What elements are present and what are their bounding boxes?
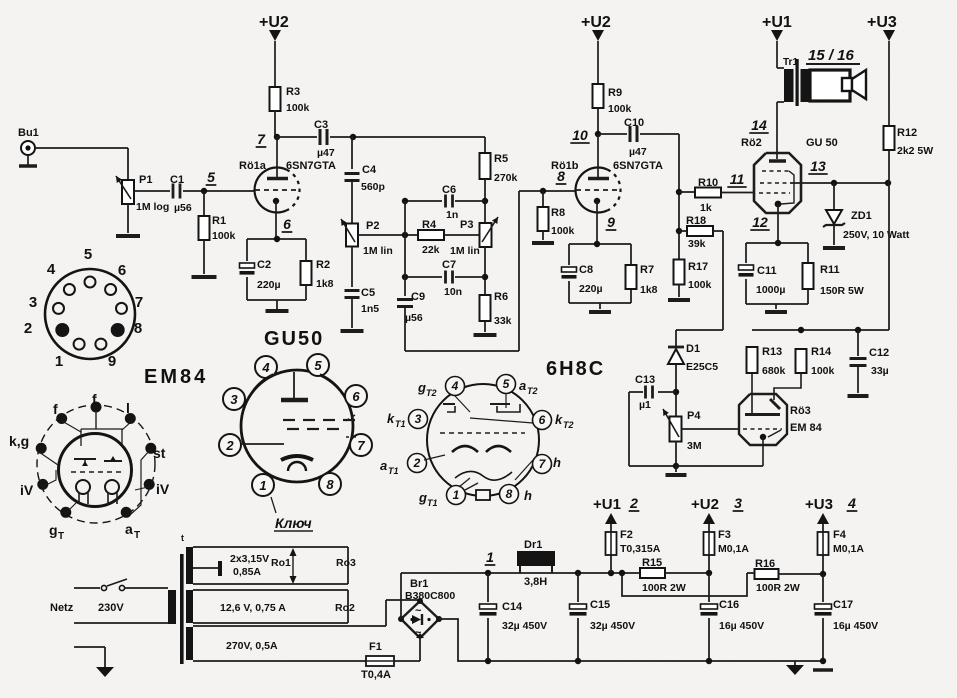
svg-text:2x3,15V: 2x3,15V [230,553,269,565]
svg-text:l: l [126,400,130,416]
svg-text:8: 8 [326,477,334,492]
svg-text:R16: R16 [755,558,775,570]
svg-text:5: 5 [314,358,322,373]
svg-text:R10: R10 [698,177,718,189]
svg-text:g: g [418,490,427,505]
svg-text:4: 4 [261,360,270,375]
svg-text:100k: 100k [286,102,310,114]
svg-text:B380C800: B380C800 [405,590,455,602]
svg-text:µ56: µ56 [405,312,423,324]
svg-text:1k: 1k [700,202,712,214]
svg-text:14: 14 [751,117,767,133]
svg-text:32µ 450V: 32µ 450V [590,620,635,632]
svg-text:100k: 100k [212,230,236,242]
svg-text:C10: C10 [624,117,644,129]
svg-text:k: k [387,411,395,426]
svg-text:220µ: 220µ [579,283,603,295]
svg-text:Ro3: Ro3 [336,557,356,569]
svg-text:g: g [49,522,58,538]
svg-text:2: 2 [413,456,421,470]
svg-text:R14: R14 [811,346,832,358]
svg-text:6: 6 [118,262,126,279]
svg-text:100k: 100k [551,225,575,237]
svg-text:GU50: GU50 [264,328,324,350]
svg-text:R5: R5 [494,153,508,165]
svg-text:T0,315A: T0,315A [620,543,661,555]
svg-text:10: 10 [572,127,588,143]
svg-text:C3: C3 [314,119,328,131]
svg-text:C7: C7 [442,259,456,271]
svg-text:22k: 22k [422,244,440,256]
svg-text:T1: T1 [395,419,406,429]
svg-text:6SN7GTA: 6SN7GTA [286,160,336,172]
svg-text:3: 3 [415,412,422,426]
svg-text:Ro2: Ro2 [335,602,355,614]
svg-text:C1: C1 [170,174,184,186]
svg-text:Netz: Netz [50,602,74,614]
svg-text:680k: 680k [762,365,786,377]
svg-text:R9: R9 [608,87,622,99]
svg-text:1: 1 [259,478,266,493]
svg-text:k: k [555,412,563,427]
svg-text:100k: 100k [688,279,712,291]
svg-text:9: 9 [108,353,116,370]
svg-text:R6: R6 [494,291,508,303]
svg-text:t: t [181,533,184,543]
svg-text:R4: R4 [422,219,437,231]
svg-text:Br1: Br1 [410,578,428,590]
svg-text:230V: 230V [98,602,124,614]
svg-text:a: a [380,458,387,473]
svg-text:Rö1a: Rö1a [239,160,267,172]
svg-text:f: f [53,401,58,417]
svg-text:1k8: 1k8 [316,278,334,290]
svg-text:T: T [58,531,64,542]
svg-text:T0,4A: T0,4A [361,669,391,681]
svg-text:1: 1 [486,549,494,565]
svg-text:µ47: µ47 [629,146,647,158]
svg-text:33µ: 33µ [871,365,889,377]
svg-text:GU 50: GU 50 [806,137,838,149]
svg-text:3: 3 [29,294,37,311]
svg-text:R8: R8 [551,207,565,219]
svg-text:C14: C14 [502,601,523,613]
svg-text:R18: R18 [686,215,706,227]
svg-text:C16: C16 [719,599,739,611]
svg-text:33k: 33k [494,315,512,327]
svg-text:Bu1: Bu1 [18,127,39,139]
svg-text:C15: C15 [590,599,610,611]
svg-text:4: 4 [451,379,459,393]
svg-text:F3: F3 [718,529,731,541]
svg-text:T2: T2 [426,388,437,398]
svg-text:P1: P1 [139,174,152,186]
svg-text:+U3: +U3 [805,496,833,513]
svg-text:P3: P3 [460,219,473,231]
svg-text:16µ 450V: 16µ 450V [719,620,764,632]
svg-text:2: 2 [629,495,638,511]
svg-text:7: 7 [257,131,266,147]
svg-text:C8: C8 [579,264,593,276]
svg-text:R15: R15 [642,557,662,569]
svg-text:12,6 V, 0,75 A: 12,6 V, 0,75 A [220,602,286,614]
svg-text:100k: 100k [811,365,835,377]
svg-text:39k: 39k [688,238,706,250]
svg-text:+U2: +U2 [691,496,719,513]
svg-text:EM 84: EM 84 [790,422,823,434]
svg-text:4: 4 [847,495,856,511]
svg-text:9: 9 [607,214,615,230]
svg-text:C5: C5 [361,287,375,299]
svg-text:1n: 1n [446,209,458,221]
svg-text:Ro1: Ro1 [271,557,291,569]
svg-text:2k2 5W: 2k2 5W [897,145,933,157]
svg-text:Rö1b: Rö1b [551,160,579,172]
svg-text:100R 2W: 100R 2W [642,582,686,594]
svg-text:2: 2 [24,320,32,337]
svg-text:a: a [519,378,526,393]
svg-text:15 / 16: 15 / 16 [808,47,855,64]
svg-text:C13: C13 [635,374,655,386]
svg-text:C17: C17 [833,599,853,611]
svg-text:T1: T1 [388,466,399,476]
svg-text:+U2: +U2 [581,14,611,31]
svg-text:F1: F1 [369,641,382,653]
svg-text:4: 4 [47,261,56,278]
svg-text:16µ 450V: 16µ 450V [833,620,878,632]
svg-text:1M lin: 1M lin [450,245,480,257]
svg-text:D1: D1 [686,343,700,355]
svg-text:iV: iV [156,481,170,497]
svg-text:+U1: +U1 [593,496,621,513]
svg-text:13: 13 [810,158,826,174]
svg-text:8: 8 [506,487,513,501]
svg-text:100R 2W: 100R 2W [756,582,800,594]
svg-text:Dr1: Dr1 [524,539,542,551]
svg-text:100k: 100k [608,103,632,115]
svg-text:1n5: 1n5 [361,303,379,315]
svg-text:R3: R3 [286,86,300,98]
svg-text:F2: F2 [620,529,633,541]
svg-text:T1: T1 [427,498,438,508]
svg-text:1M lin: 1M lin [363,245,393,257]
svg-text:g: g [417,380,426,395]
svg-text:C12: C12 [869,347,889,359]
svg-text:0,85A: 0,85A [233,566,261,578]
svg-text:6: 6 [352,389,360,404]
svg-text:P2: P2 [366,220,379,232]
svg-text:R2: R2 [316,259,330,271]
svg-text:270k: 270k [494,172,518,184]
svg-text:ZD1: ZD1 [851,210,872,222]
svg-text:Rö3: Rö3 [790,405,811,417]
svg-text:270V, 0,5A: 270V, 0,5A [226,640,278,652]
svg-text:5: 5 [207,169,215,185]
svg-text:32µ 450V: 32µ 450V [502,620,547,632]
svg-text:R11: R11 [820,264,840,276]
svg-text:Rö2: Rö2 [741,137,762,149]
svg-text:f: f [92,391,97,407]
svg-text:6: 6 [283,216,291,232]
svg-text:EM84: EM84 [144,366,208,388]
svg-text:R12: R12 [897,127,917,139]
svg-text:C11: C11 [757,265,777,277]
svg-text:1000µ: 1000µ [756,284,785,296]
svg-text:a: a [125,521,133,537]
svg-text:1M log: 1M log [136,201,169,213]
svg-text:µ1: µ1 [639,399,651,411]
svg-text:+U2: +U2 [259,14,289,31]
svg-text:5: 5 [503,377,510,391]
svg-text:M0,1A: M0,1A [718,543,749,555]
svg-text:C6: C6 [442,184,456,196]
svg-text:1: 1 [453,488,460,502]
svg-text:11: 11 [730,171,745,187]
svg-text:3,8H: 3,8H [524,576,547,588]
svg-text:560p: 560p [361,181,385,193]
svg-text:h: h [553,455,561,470]
svg-text:Ключ: Ключ [275,515,312,531]
svg-text:T: T [134,530,140,541]
svg-text:3: 3 [734,495,742,511]
svg-text:R17: R17 [688,261,708,273]
svg-text:st: st [153,445,166,461]
svg-text:10n: 10n [444,286,462,298]
svg-text:3M: 3M [687,440,702,452]
svg-text:5: 5 [84,246,92,263]
svg-text:~: ~ [415,627,422,639]
svg-text:7: 7 [357,438,365,453]
svg-text:P4: P4 [687,410,701,422]
svg-text:3: 3 [230,392,238,407]
svg-text:6: 6 [539,413,546,427]
svg-text:12: 12 [752,214,768,230]
svg-text:150R 5W: 150R 5W [820,285,864,297]
svg-text:+U3: +U3 [867,14,897,31]
svg-text:R1: R1 [212,215,226,227]
svg-text:C2: C2 [257,259,271,271]
svg-text:220µ: 220µ [257,279,281,291]
svg-text:M0,1A: M0,1A [833,543,864,555]
svg-text:+U1: +U1 [762,14,792,31]
svg-text:7: 7 [135,294,143,311]
svg-text:R13: R13 [762,346,782,358]
svg-text:µ56: µ56 [174,202,192,214]
svg-text:2: 2 [225,438,234,453]
svg-text:T2: T2 [527,386,538,396]
svg-text:T2: T2 [563,420,574,430]
svg-text:h: h [524,488,532,503]
svg-text:F4: F4 [833,529,847,541]
svg-text:1k8: 1k8 [640,284,658,296]
svg-text:250V, 10 Watt: 250V, 10 Watt [843,229,910,241]
svg-text:E25C5: E25C5 [686,361,718,373]
svg-text:R7: R7 [640,264,654,276]
svg-text:C4: C4 [362,164,377,176]
svg-text:C9: C9 [411,291,425,303]
svg-text:6Н8С: 6Н8С [546,358,605,380]
svg-text:1: 1 [55,353,63,370]
svg-text:k,g: k,g [9,433,29,449]
svg-text:iV: iV [20,482,34,498]
svg-text:µ47: µ47 [317,147,335,159]
svg-text:6SN7GTA: 6SN7GTA [613,160,663,172]
svg-text:8: 8 [134,320,142,337]
